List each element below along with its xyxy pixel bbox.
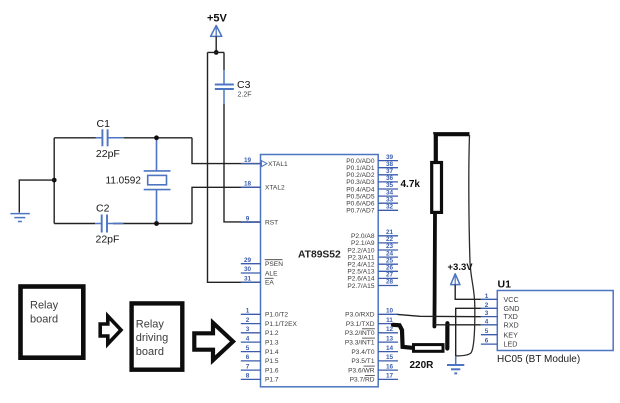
wire top horizontal (C1 row) (54, 137, 192, 139)
svg-text:25: 25 (386, 257, 394, 264)
wire left vertical (53, 138, 55, 224)
svg-text:C2: C2 (96, 203, 110, 215)
svg-text:28: 28 (386, 279, 394, 286)
wire MCU P3.0 to HC05 TXD (398, 314, 481, 316)
pin 28 P2.7/A15 (347, 279, 398, 290)
pin 37 P0.2/AD2 (346, 168, 398, 179)
svg-text:4.7k: 4.7k (401, 179, 421, 190)
pin 34 P0.5/AD5 (346, 189, 398, 200)
svg-text:35: 35 (386, 182, 394, 189)
svg-text:+3.3V: +3.3V (448, 262, 474, 273)
svg-text:P3.7/RD: P3.7/RD (350, 377, 375, 384)
wire thick 220R right lead (445, 323, 449, 348)
svg-text:5: 5 (485, 328, 489, 335)
svg-text:P0.0/AD0: P0.0/AD0 (346, 158, 375, 165)
svg-text:15: 15 (386, 354, 394, 361)
svg-text:14: 14 (386, 345, 394, 352)
pin 32 P0.7/AD7 (346, 204, 398, 215)
junction bottom crystal node (154, 221, 159, 226)
ground (HC05) (447, 356, 464, 373)
wire RXD net (434, 324, 481, 326)
svg-text:P1.2: P1.2 (265, 330, 279, 337)
svg-text:P3.4/T0: P3.4/T0 (351, 349, 374, 356)
svg-text:4: 4 (246, 335, 250, 342)
pin 5 KEY (HC05) (481, 328, 518, 339)
pin 9 RST (241, 215, 278, 226)
svg-text:2.2F: 2.2F (238, 92, 252, 99)
svg-text:P1.1/T2EX: P1.1/T2EX (265, 321, 297, 328)
svg-text:31: 31 (244, 276, 252, 283)
svg-text:5: 5 (246, 345, 250, 352)
svg-text:24: 24 (386, 250, 394, 257)
svg-text:P0.4/AD4: P0.4/AD4 (346, 186, 375, 193)
svg-text:6: 6 (246, 354, 250, 361)
svg-text:board: board (136, 346, 164, 358)
pin 1 P1.0/T2 (241, 308, 289, 319)
resistor R1 4.7k (432, 163, 442, 213)
svg-text:16: 16 (386, 363, 394, 370)
svg-text:EA: EA (265, 280, 274, 287)
svg-text:1: 1 (485, 293, 489, 300)
pin 7 P1.6 (241, 363, 279, 374)
svg-text:XTAL1: XTAL1 (268, 161, 288, 168)
wire XTAL2 feed (192, 187, 261, 223)
svg-text:ALE: ALE (265, 270, 278, 277)
pin 4 P1.3 (241, 335, 279, 346)
svg-text:19: 19 (244, 157, 252, 164)
pin 18 XTAL2 (241, 181, 285, 192)
svg-text:P0.7/AD7: P0.7/AD7 (346, 208, 375, 215)
block Relay driving board (132, 303, 183, 369)
wire XTAL1 feed (192, 138, 261, 164)
capacitor C1 (96, 129, 124, 146)
pin 10 P3.0/RXD (345, 308, 398, 319)
svg-text:RXD: RXD (504, 320, 519, 329)
svg-text:22pF: 22pF (96, 148, 120, 160)
wire bottom horizontal (C2 row) (54, 223, 192, 225)
svg-text:P0.6/AD6: P0.6/AD6 (346, 201, 375, 208)
svg-text:32: 32 (386, 204, 394, 211)
svg-text:RST: RST (265, 220, 278, 227)
wire RST feed (224, 104, 261, 222)
svg-text:P0.1/AD1: P0.1/AD1 (346, 165, 375, 172)
svg-text:P3.1/TXD: P3.1/TXD (346, 321, 375, 328)
svg-text:C1: C1 (97, 118, 111, 130)
svg-text:HC05 (BT Module): HC05 (BT Module) (497, 354, 580, 365)
wire GND net (456, 308, 481, 358)
svg-text:37: 37 (386, 168, 394, 175)
svg-text:3: 3 (246, 326, 250, 333)
svg-text:P2.2/A10: P2.2/A10 (347, 247, 374, 254)
wire thick 4.7k bottom lead (432, 214, 436, 327)
svg-text:21: 21 (386, 229, 394, 236)
junction top crystal node (154, 135, 159, 140)
pin 33 P0.6/AD6 (346, 196, 398, 207)
pin 27 P2.6/A14 (347, 272, 398, 283)
svg-text:38: 38 (386, 161, 394, 168)
svg-text:18: 18 (244, 181, 252, 188)
svg-text:PSEN: PSEN (265, 261, 283, 268)
svg-text:27: 27 (386, 272, 394, 279)
wire ground stub left (19, 180, 54, 213)
pin 38 P0.1/AD1 (346, 161, 398, 172)
resistor R2 220R (414, 345, 444, 352)
block Relay board (21, 287, 84, 358)
pin 23 P2.2/A10 (347, 243, 398, 254)
svg-text:P2.5/A13: P2.5/A13 (347, 269, 374, 276)
pin 26 P2.5/A13 (347, 265, 398, 276)
pin 13 P3.3/INT1 (345, 335, 398, 346)
svg-text:29: 29 (244, 257, 252, 264)
svg-text:P2.1/A9: P2.1/A9 (351, 240, 375, 247)
wire thick TXD to 220R (393, 325, 412, 348)
svg-text:P3.2/INT0: P3.2/INT0 (345, 330, 375, 337)
junction left ground tap (52, 178, 57, 183)
pin 25 P2.4/A12 (347, 257, 398, 268)
pin 35 P0.4/AD4 (346, 182, 398, 193)
svg-text:4: 4 (485, 318, 489, 325)
power +5V (207, 13, 228, 37)
pin 6 P1.5 (241, 354, 279, 365)
svg-text:P3.3/INT1: P3.3/INT1 (345, 339, 375, 346)
pin 19 XTAL1 (241, 157, 288, 168)
svg-text:XTAL2: XTAL2 (265, 185, 285, 192)
svg-text:2: 2 (485, 302, 489, 309)
svg-text:36: 36 (386, 175, 394, 182)
pin 3 TXD (HC05) (481, 310, 518, 321)
pin 29 PSEN (241, 257, 283, 268)
pin 3 P1.2 (241, 326, 279, 337)
pin 21 P2.0/A8 (351, 229, 398, 240)
junction +5V split (214, 50, 219, 55)
pin 36 P0.3/AD3 (346, 175, 398, 186)
module U1 HC05 body (497, 291, 613, 351)
svg-text:Relay: Relay (136, 319, 165, 331)
svg-text:P3.6/WR: P3.6/WR (348, 367, 375, 374)
svg-text:P2.7/A15: P2.7/A15 (347, 283, 374, 290)
svg-text:P2.4/A12: P2.4/A12 (347, 262, 374, 269)
svg-text:AT89S52: AT89S52 (298, 250, 341, 261)
svg-text:LED: LED (504, 340, 518, 349)
capacitor C3 (215, 70, 234, 104)
svg-text:26: 26 (386, 265, 394, 272)
crystal X1 11.0592 (144, 138, 171, 224)
microcontroller AT89S52 body (261, 155, 379, 387)
pin 8 P1.7 (241, 373, 279, 384)
svg-text:11.0592: 11.0592 (106, 176, 142, 187)
svg-text:12: 12 (386, 326, 394, 333)
pin 39 P0.0/AD0 (346, 154, 398, 165)
pin 14 P3.4/T0 (351, 345, 398, 356)
svg-text:220R: 220R (410, 360, 435, 371)
svg-text:P0.2/AD2: P0.2/AD2 (346, 172, 375, 179)
wire freehand 4.7k top to ground net (456, 135, 475, 356)
svg-text:P1.0/T2: P1.0/T2 (265, 312, 288, 319)
svg-text:2: 2 (246, 317, 250, 324)
svg-text:VCC: VCC (504, 295, 519, 304)
wire +5V stem (215, 36, 217, 52)
svg-text:10: 10 (386, 308, 394, 315)
pin 4 RXD (HC05) (481, 318, 519, 329)
wire thick 4.7k top link (436, 134, 470, 162)
svg-text:U1: U1 (498, 279, 512, 291)
svg-text:3: 3 (485, 310, 489, 317)
pin 24 P2.3/A11 (348, 250, 398, 261)
svg-text:P2.0/A8: P2.0/A8 (351, 233, 375, 240)
svg-text:P0.5/AD5: P0.5/AD5 (346, 193, 375, 200)
pin 11 P3.1/TXD (346, 317, 398, 328)
svg-text:P3.0/RXD: P3.0/RXD (345, 312, 375, 319)
svg-text:P1.5: P1.5 (265, 358, 279, 365)
pin 5 P1.4 (241, 345, 279, 356)
svg-text:33: 33 (386, 196, 394, 203)
wire C3 branch upper (223, 52, 225, 70)
ground (left) (10, 214, 29, 222)
svg-text:11: 11 (386, 317, 393, 324)
pin 17 P3.7/RD (350, 373, 398, 384)
wire EA tie-high (left branch) (208, 52, 261, 282)
svg-text:39: 39 (386, 154, 394, 161)
arrow small (relay link) (100, 316, 121, 344)
svg-text:13: 13 (386, 335, 394, 342)
svg-text:34: 34 (386, 189, 394, 196)
svg-text:Relay: Relay (30, 300, 59, 312)
wire +5V bridge (208, 51, 225, 53)
svg-text:C3: C3 (237, 79, 251, 91)
pin 12 P3.2/INT0 (345, 326, 398, 337)
svg-text:17: 17 (386, 373, 394, 380)
pin 2 P1.1/T2EX (241, 317, 298, 328)
pin 1 VCC (HC05) (481, 293, 519, 304)
svg-text:P1.7: P1.7 (265, 377, 279, 384)
pin 6 LED (HC05) (481, 338, 518, 349)
svg-text:P2.3/A11: P2.3/A11 (348, 254, 375, 261)
power +3.3V (448, 262, 474, 285)
svg-text:P2.6/A14: P2.6/A14 (347, 276, 374, 283)
arrow big (to port P1) (194, 323, 233, 360)
svg-text:driving: driving (136, 332, 168, 344)
pin 22 P2.1/A9 (351, 236, 398, 247)
svg-text:1: 1 (246, 308, 250, 315)
svg-text:7: 7 (246, 363, 250, 370)
svg-text:KEY: KEY (504, 330, 519, 339)
svg-text:23: 23 (386, 243, 394, 250)
svg-text:22: 22 (386, 236, 394, 243)
svg-text:22pF: 22pF (96, 234, 120, 246)
svg-text:P0.3/AD3: P0.3/AD3 (346, 179, 375, 186)
svg-text:P3.5/T1: P3.5/T1 (351, 358, 374, 365)
svg-text:9: 9 (246, 215, 250, 222)
svg-text:P1.4: P1.4 (265, 349, 279, 356)
svg-text:+5V: +5V (207, 13, 228, 25)
svg-text:30: 30 (244, 266, 252, 273)
svg-text:8: 8 (246, 373, 250, 380)
svg-text:P1.3: P1.3 (265, 339, 279, 346)
pin 16 P3.6/WR (348, 363, 398, 374)
capacitor C2 (95, 215, 123, 233)
svg-text:6: 6 (485, 338, 489, 345)
wire +3.3V to VCC (455, 285, 481, 300)
clock input mark XTAL1 (262, 161, 268, 167)
pin 15 P3.5/T1 (351, 354, 398, 365)
pin 31 EA (241, 276, 275, 287)
svg-text:board: board (30, 314, 58, 326)
svg-text:P1.6: P1.6 (265, 367, 279, 374)
pin 2 GND (HC05) (481, 302, 520, 313)
pin 30 ALE (241, 266, 278, 277)
